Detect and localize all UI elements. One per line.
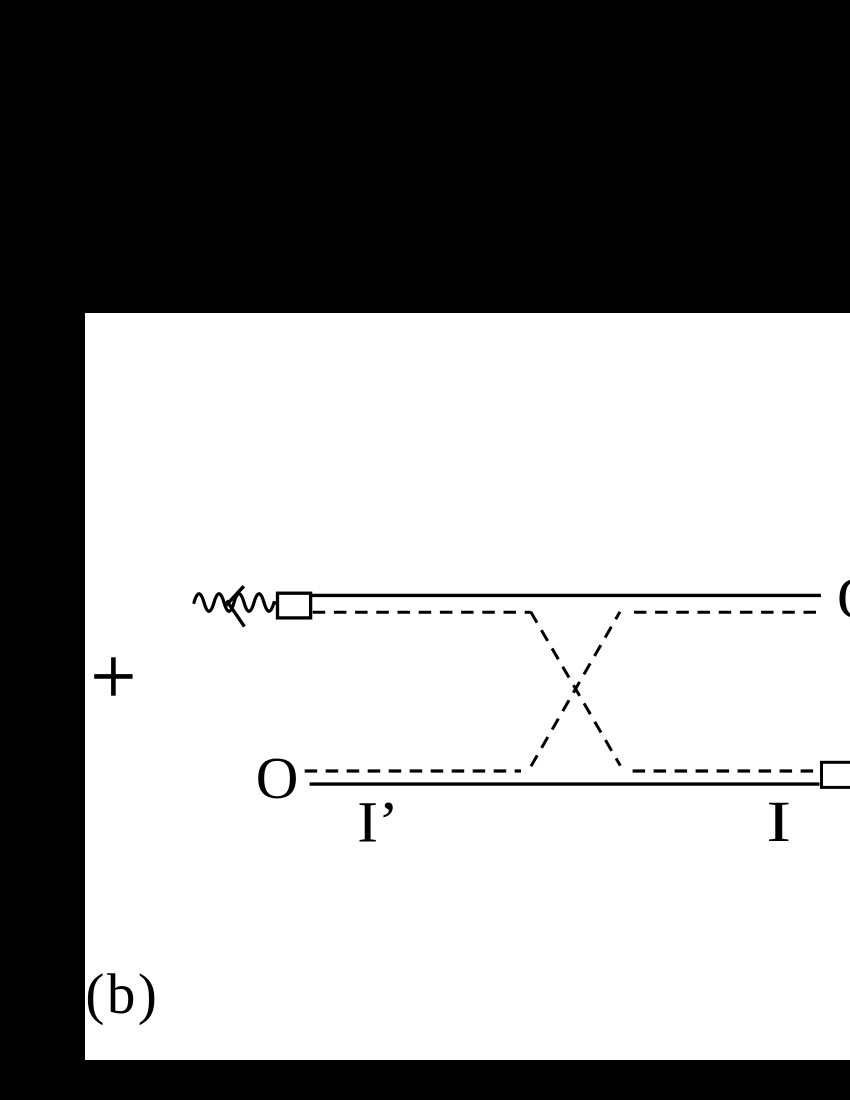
top dashed line left segment xyxy=(313,611,531,614)
svg-text:I’: I’ xyxy=(357,790,399,855)
plus sign xyxy=(94,657,132,695)
top solid line xyxy=(312,594,821,597)
white figure panel xyxy=(85,313,850,1060)
svg-text:O: O xyxy=(256,745,299,811)
vertex box top-left xyxy=(278,593,311,618)
dashed diagonal A (down-right) xyxy=(531,612,621,766)
wavy photon line xyxy=(194,594,277,612)
vertex box bottom-right xyxy=(822,762,850,787)
svg-text:(b): (b) xyxy=(85,963,159,1026)
arrow on photon line xyxy=(226,586,245,626)
bottom solid line xyxy=(310,782,820,785)
bottom dashed line left segment xyxy=(305,769,521,772)
svg-text:O: O xyxy=(837,565,850,631)
dashed diagonal B (up-right) xyxy=(531,612,620,766)
top dashed line right segment xyxy=(634,611,816,614)
svg-text:I: I xyxy=(766,789,791,854)
bottom dashed line right segment xyxy=(633,769,820,772)
